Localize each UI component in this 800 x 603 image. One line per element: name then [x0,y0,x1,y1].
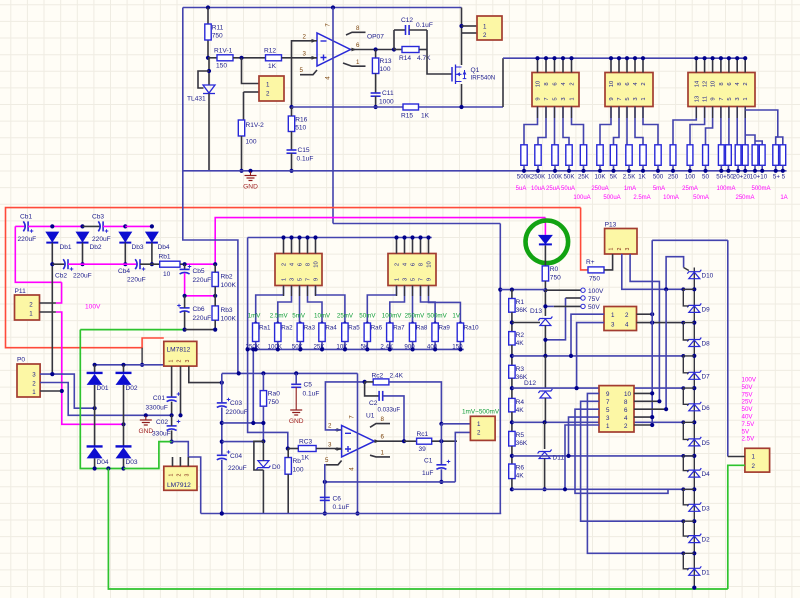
junction KS2 [664,407,668,411]
wire pin stub [642,58,644,72]
svg-text:D04: D04 [97,459,109,466]
junction chain bypass [681,287,685,291]
svg-text:Ra8: Ra8 [416,325,428,332]
junction rail [743,169,747,173]
wire res stub [761,165,763,171]
resistor bank [580,145,586,166]
wire Rb3 stub [214,296,216,306]
junction chain [510,454,514,458]
pin 7/4 rail U1 [357,373,359,513]
wire Rb2 bottom [214,287,216,296]
svg-text:9: 9 [711,97,717,100]
wire pin lead [695,107,697,119]
svg-text:5K: 5K [361,343,369,350]
svg-text:Ra7: Ra7 [393,325,405,332]
junction bus [609,56,613,60]
svg-text:100: 100 [293,467,304,474]
junction bus [410,235,414,239]
zener D1 [687,566,701,575]
junction bus [569,56,573,60]
svg-text:Cb3: Cb3 [92,214,104,221]
capacitor C03 [217,403,227,408]
junction D03 bottom [121,466,125,470]
wire C02 bottom [171,430,173,441]
wire RC3 to pin3 [316,448,342,450]
wire KS2 pin [634,416,652,418]
svg-text:D13: D13 [530,308,542,315]
svg-text:3: 3 [403,278,409,281]
wire fan [673,107,696,145]
svg-text:Ra1: Ra1 [259,325,271,332]
svg-text:R12: R12 [264,48,276,55]
wire green C02 link [124,442,172,469]
zener D12 [538,389,552,398]
wire Db2 column [82,243,84,265]
zener D3 [687,502,701,511]
svg-text:900: 900 [404,343,415,350]
wire magenta to P11 pin2 [56,282,62,303]
junction pin2 gnd [178,413,182,417]
diode ref [538,235,553,245]
wire D01 column [94,385,96,447]
wire D0 top stub [262,441,264,460]
wire res stub [568,165,570,171]
wire fan [572,107,584,145]
wire to Rc1 [404,440,417,442]
junction chain [510,386,514,390]
wire LM7912 pins [172,457,174,466]
resistor R13 [372,58,378,74]
wire pair link 5+5 [776,137,783,145]
svg-text:500mA: 500mA [751,186,770,192]
wire bundle v3 down [665,289,667,409]
capacitor C11 [371,93,381,96]
junction D04 bottom [93,466,97,470]
wire to R3 [511,345,513,365]
junction bus [297,235,301,239]
wire D03 bottom [123,458,125,468]
wire tap 322 [512,322,540,324]
svg-text:C02: C02 [156,419,168,426]
svg-text:3: 3 [606,415,610,422]
test point 75V [581,296,585,300]
svg-text:5mA: 5mA [653,186,665,192]
resistor bank3 [735,145,741,166]
junction Ra top [299,322,302,325]
svg-text:50V: 50V [588,304,600,311]
svg-text:12: 12 [703,81,709,87]
wire TL431 to rail [208,94,210,171]
svg-text:Cb5: Cb5 [193,268,205,275]
junction chain [510,354,514,358]
resistor bank3 [670,145,676,166]
wire pin lead [618,107,620,119]
svg-text:2: 2 [303,34,307,41]
resistor bank [626,145,632,166]
junction rail [736,169,740,173]
wire fan [554,107,556,145]
capacitor C04 [217,455,227,460]
svg-text:10: 10 [624,391,631,398]
svg-text:D5: D5 [702,440,711,447]
diode Db1 [45,232,59,243]
wire Cb5 stub [184,264,186,269]
wire Ra stub [434,342,436,350]
wire Ra stub [389,342,391,350]
wire pin stub [396,238,398,254]
resistor R5 [509,431,528,447]
svg-text:C5: C5 [304,382,313,389]
wire pin stub [412,238,414,254]
junction Rb3 top [213,294,217,298]
wire pin lead [736,107,738,119]
junction bridge left [93,406,97,410]
junction rail [726,169,730,173]
capacitor Cb1 [23,221,28,231]
connector P13 [605,229,637,255]
svg-text:0.1uF: 0.1uF [303,391,320,398]
wire C03 column [221,374,223,403]
pin 5 stub [300,70,317,75]
junction bus [426,235,430,239]
resistor R16 [288,116,307,132]
wire bottom rail U1 [201,513,502,515]
wire mid bus [248,237,432,239]
svg-text:R6: R6 [516,465,525,472]
svg-text:6: 6 [553,82,559,85]
svg-text:1: 1 [32,389,36,396]
wire pin stub [626,58,628,72]
svg-text:75V: 75V [742,391,754,398]
svg-text:150: 150 [452,343,463,350]
junction P0 pin1 [60,389,64,393]
svg-text:Q1: Q1 [471,67,480,74]
junction Ra bottom [276,347,280,351]
svg-text:9: 9 [606,391,610,398]
resistor R2 [509,332,525,348]
wire magenta to ref diode [544,218,546,235]
wire magenta main [215,218,545,264]
wire bank link [652,239,728,241]
wire bypass step [683,388,694,404]
diode D03 [116,446,132,458]
junction D11 top [543,420,547,424]
svg-text:2: 2 [483,32,487,39]
wire fan [524,107,538,145]
svg-text:6: 6 [411,263,417,266]
wire Ra stub [255,342,257,350]
resistor Ra3 [297,323,303,342]
wire magenta pin1 [56,312,124,424]
junction chain bypass [681,321,685,325]
wire to R16 [291,107,293,116]
junction C03 column [220,381,224,385]
junction C12 left [392,47,396,51]
svg-text:R2: R2 [516,332,525,339]
wire pin stub [720,58,722,72]
svg-text:25K: 25K [578,174,590,181]
svg-text:D2: D2 [702,537,711,544]
junction top-R11 [206,5,210,9]
wire fan A [316,286,345,324]
svg-text:4.7K: 4.7K [417,55,431,62]
wire pin lead [315,286,317,297]
wire P13 pin3 [630,254,659,401]
junction Ra10 top [459,322,462,325]
wire bypass step [683,289,694,306]
connector J1 [532,73,579,107]
svg-text:Ra6: Ra6 [371,325,383,332]
junction chain node [692,487,696,491]
junction rail [671,169,675,173]
svg-text:10: 10 [427,261,433,267]
junction chain [510,487,514,491]
wire Cb3-Db3 [103,225,125,227]
svg-text:1: 1 [169,473,175,476]
diode Db3 [118,232,132,243]
wire fan [744,107,746,145]
junction chain bypass [681,454,685,458]
wire to Q1 gate [427,30,452,74]
wire red bridge stub [141,348,143,365]
junction rail [627,169,631,173]
junction Ra top [321,322,324,325]
wire pin lead [634,107,636,119]
wire res stub [689,165,691,171]
wire Db4 column [151,243,153,265]
wire right riser [727,240,729,456]
wire Q1 drain [461,8,463,66]
wire bypass step [683,323,694,340]
wire res stub [613,165,615,171]
svg-text:5: 5 [300,67,304,74]
wire magenta jumper [184,273,186,296]
svg-text:6: 6 [381,434,385,441]
pin 7/4 rail [332,8,334,224]
svg-text:13: 13 [694,96,700,102]
svg-text:3: 3 [184,473,190,476]
svg-text:10: 10 [609,81,615,87]
wire R6 bottom [511,479,513,490]
wire pin stub [571,58,573,72]
resistor bank [597,145,603,166]
pin 6 output U1 [374,440,404,442]
junction chain [510,420,514,424]
wire fan B [367,286,396,324]
svg-text:1: 1 [395,278,401,281]
wire pin stub [610,58,612,72]
junction chain node [692,354,696,358]
svg-text:6: 6 [356,42,360,49]
svg-text:4K: 4K [516,407,525,414]
junction rail [719,169,723,173]
test point 50V [581,304,585,308]
resistor Ra9 [432,323,438,342]
junction magenta bridge [121,422,125,426]
pin 3 stub [310,57,317,59]
junction pin4 rail [355,511,359,515]
svg-text:R16: R16 [295,117,307,124]
connector K1 [259,76,284,101]
svg-text:1K: 1K [268,63,277,70]
wire test 75V [566,297,581,299]
wire C15 to rail [291,153,293,171]
svg-text:D3: D3 [702,505,711,512]
svg-text:10: 10 [711,81,717,87]
wire pin lead [396,286,398,297]
resistor Rb1 [160,261,180,267]
svg-text:7.5V: 7.5V [742,421,756,428]
svg-text:4K: 4K [516,340,525,347]
svg-text:Rb3: Rb3 [221,307,233,314]
wire conn pin1 path [441,423,470,425]
resistor bank [640,145,646,166]
wire pin stub [704,58,706,72]
wire C12 right [409,29,427,31]
junction Ra bottom [411,347,415,351]
junction KS2 [650,423,654,427]
wire opamp to divider [333,223,500,225]
junction bus [641,56,645,60]
wire to R4 [511,378,513,398]
junction v3 [664,287,668,291]
wire to R5 [511,412,513,432]
wire KS2 pin1 [565,425,599,489]
svg-text:1mV: 1mV [248,313,262,320]
svg-text:10K: 10K [336,343,348,350]
capacitor Cb2 [63,259,68,269]
junction chain node [692,519,696,523]
green circle highlight [526,221,569,264]
svg-text:100K: 100K [221,316,237,323]
wire pin lead [412,286,414,297]
pin 6 output [351,49,395,51]
svg-text:8: 8 [356,25,360,32]
svg-text:1mA: 1mA [624,186,636,192]
svg-text:50mV: 50mV [359,313,376,320]
wire magenta P11 drop [15,226,61,282]
junction Db2/mid [80,262,84,266]
junction Db1/mid [50,262,54,266]
wire mid bottom bus [248,348,464,350]
wire pin stub [554,58,556,72]
wire bypass step [683,489,694,505]
resistor bank3 [752,145,758,166]
zener D8 [687,338,701,347]
junction C6 bottom [323,511,327,515]
capacitor Cb4 [135,259,140,269]
junction drop253 b [251,421,255,425]
wire C5 top [295,373,297,384]
wire R1V-2 to rail [241,136,243,171]
wire chain top [500,289,545,291]
svg-text:1: 1 [356,59,360,66]
resistor Ra4 [319,323,325,342]
junction rail [536,169,540,173]
wire pin lead [554,107,556,119]
svg-text:10: 10 [536,81,542,87]
svg-text:0.1uF: 0.1uF [333,504,350,511]
svg-text:C6: C6 [333,496,342,503]
wire bundle v1 [651,240,653,425]
wire C2 branch [365,382,380,396]
junction bus [727,56,731,60]
svg-text:LM7812: LM7812 [167,347,191,354]
wire pin stub [404,238,406,254]
wire to R6 [511,446,513,464]
svg-text:220uF: 220uF [193,277,212,284]
svg-text:100V: 100V [85,304,101,311]
svg-text:5+ 5: 5+ 5 [773,174,786,181]
connector J2 [605,73,653,107]
wire bottom rail y171 [183,170,787,172]
junction green drop [106,466,110,470]
svg-text:36K: 36K [516,440,528,447]
wire C03-C04 [221,407,223,454]
svg-text:Rb2: Rb2 [221,274,233,281]
svg-text:R1: R1 [516,299,525,306]
wire Ra stub [277,342,279,350]
wire res stub [599,165,601,171]
resistor bank3 [742,145,748,166]
svg-text:Db3: Db3 [132,244,144,251]
svg-text:10mV: 10mV [314,313,331,320]
svg-text:2: 2 [395,263,401,266]
wire pin lead [299,286,301,297]
svg-text:1mV~500mV: 1mV~500mV [462,409,500,416]
svg-text:510: 510 [295,125,306,132]
svg-text:D7: D7 [702,373,711,380]
wire to TL431 [208,58,210,85]
junction Ra top [411,322,414,325]
svg-text:R5: R5 [516,432,525,439]
wire Ra0 stub [262,373,264,390]
junction drop253 [251,347,255,351]
wire right riser [502,58,504,107]
resistor Ra5 [342,323,348,342]
svg-text:50mA: 50mA [693,195,709,201]
svg-text:25mV: 25mV [337,313,354,320]
svg-text:C2: C2 [369,400,378,407]
connector P0 [17,364,40,397]
connector KOUT2 [745,448,770,472]
svg-text:1000: 1000 [379,99,394,106]
svg-text:D6: D6 [702,405,711,412]
zener D13 [538,317,552,326]
test point 100V [581,288,585,292]
capacitor Cb3 [98,221,103,231]
connector JB [388,254,436,286]
junction Ra0 top [261,371,265,375]
junction rail [781,169,785,173]
diode D01 [87,373,103,385]
svg-text:Cb2: Cb2 [55,273,67,280]
svg-text:250uA: 250uA [591,186,608,192]
svg-text:50+50: 50+50 [716,174,734,181]
junction rail [598,169,602,173]
junction divider top [498,288,502,292]
svg-text:1: 1 [611,312,615,319]
junction pin1 tap [563,487,567,491]
wire pin stub [428,238,430,254]
svg-text:8: 8 [617,82,623,85]
junction top-pin7 [331,5,335,9]
wire out link [440,424,442,441]
junction chain node [692,321,696,325]
junction bus [633,56,637,60]
junction rail [688,169,692,173]
wire C02 top [171,415,173,426]
